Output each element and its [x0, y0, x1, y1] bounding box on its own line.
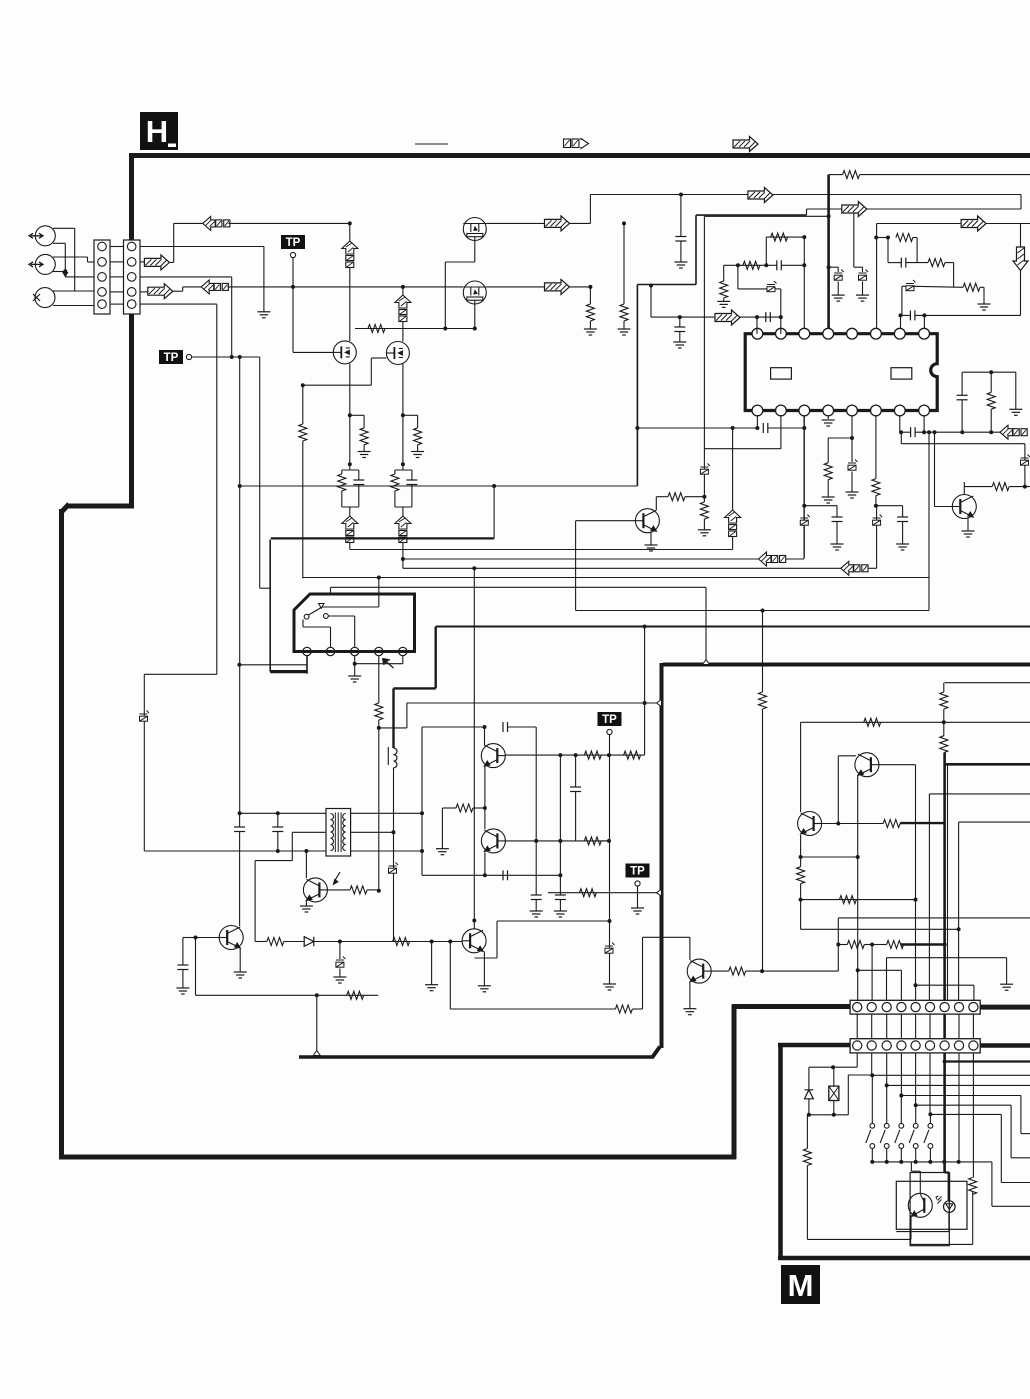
wire pin2 riser — [780, 289, 782, 334]
ground — [333, 977, 346, 983]
switch lever — [880, 1130, 885, 1143]
relay RL1 outline — [294, 594, 415, 652]
wire to edge — [1021, 1133, 1030, 1135]
wire — [679, 332, 681, 343]
wire rc top — [342, 469, 359, 471]
junction — [827, 265, 831, 269]
wire switch feed — [915, 1105, 917, 1123]
capacitor polarized small — [140, 711, 150, 722]
ground — [603, 984, 616, 990]
wire — [341, 470, 343, 474]
wire to strip row3 — [65, 276, 94, 278]
resistor — [987, 392, 995, 409]
wire — [1020, 271, 1022, 315]
wire — [929, 1113, 931, 1115]
wire — [990, 372, 992, 392]
wire pin7 thin — [947, 764, 949, 1000]
connector CN3 pin — [867, 1003, 876, 1012]
capacitor — [957, 395, 968, 400]
wire — [623, 321, 625, 329]
IC U1 pin bottom — [752, 405, 763, 416]
junction — [799, 898, 803, 902]
wire CN3-CN4 — [856, 1014, 858, 1039]
junction — [430, 940, 434, 944]
resistor — [624, 751, 641, 759]
wire — [862, 267, 864, 272]
wire — [444, 262, 446, 329]
wire — [277, 832, 279, 852]
wire — [943, 683, 945, 692]
wire pin5 down — [402, 656, 404, 664]
connector CN3 pin — [853, 1003, 862, 1012]
wire right rail1 — [801, 721, 1030, 723]
capacitor polarized small — [834, 270, 844, 281]
wire step — [930, 1113, 1001, 1115]
wire — [868, 567, 877, 569]
wire — [195, 938, 197, 996]
relay pin — [351, 647, 359, 655]
junction — [238, 811, 242, 815]
test point TP3 — [598, 712, 622, 735]
wire — [732, 537, 734, 550]
wire — [961, 372, 963, 395]
wire down to ground — [263, 247, 265, 312]
wire — [441, 808, 443, 849]
wire pin14 drop — [875, 415, 877, 479]
junction — [761, 609, 765, 613]
switch lever — [866, 1130, 871, 1143]
junction triangle — [313, 1051, 320, 1056]
wire — [173, 290, 183, 292]
wire to FET Q3 gate — [293, 351, 333, 353]
wire — [442, 807, 456, 809]
ground — [717, 301, 730, 307]
wire — [906, 262, 928, 264]
wire — [406, 703, 408, 728]
wire CN1-CN2 — [110, 246, 124, 248]
wire — [314, 941, 462, 943]
resistor — [620, 304, 628, 321]
junction — [755, 426, 759, 430]
wire — [943, 722, 945, 735]
wire — [738, 288, 767, 290]
IC U1 pin bottom — [894, 405, 905, 416]
svg-text:M: M — [788, 1268, 814, 1303]
junction — [276, 811, 280, 815]
wire switch feed — [871, 1075, 873, 1123]
wire — [723, 265, 725, 281]
wire relay arm rail — [322, 606, 379, 608]
wire — [943, 709, 945, 722]
ground — [425, 985, 438, 991]
junction — [914, 1103, 918, 1107]
resistor — [720, 281, 728, 298]
bus down — [435, 627, 437, 689]
wire — [291, 832, 293, 860]
transistor Q8a — [481, 744, 505, 768]
wire right rail3 — [801, 928, 959, 930]
wire to edge — [1001, 1182, 1030, 1184]
border H top — [129, 153, 1030, 158]
wire — [838, 823, 883, 825]
arrow to pin1 — [715, 310, 740, 325]
wire TP1 lower — [292, 287, 294, 353]
wire — [887, 238, 889, 263]
wire to edge — [887, 1084, 1030, 1086]
border region2 bottom rail — [299, 1055, 654, 1059]
wire feedback rail — [196, 994, 379, 996]
junction — [807, 1113, 811, 1117]
capacitor polarized small — [389, 863, 399, 874]
wire bottom rail — [422, 874, 560, 876]
wire — [260, 587, 271, 589]
wire pin drop — [886, 1053, 888, 1086]
wire — [88, 261, 95, 263]
wire Q14 collector — [838, 755, 856, 757]
wire diode rail — [255, 941, 267, 943]
wire strip row2 — [140, 261, 144, 263]
transformer T1 winding right — [343, 814, 346, 851]
IC U1 pin top — [919, 328, 930, 339]
wire — [402, 464, 404, 470]
wire — [809, 1114, 848, 1116]
IC U1 pin bottom — [847, 405, 858, 416]
wire — [896, 1231, 949, 1233]
wire bundle 2b — [474, 567, 841, 569]
connector CN2 pin — [127, 242, 136, 251]
resistor — [864, 718, 881, 726]
wire riser — [575, 521, 577, 611]
diode D2 — [805, 1090, 814, 1099]
connector CN4 pin — [940, 1041, 949, 1050]
capacitor — [272, 827, 283, 832]
wire step — [806, 209, 808, 215]
wire to FET Q4 — [402, 322, 404, 342]
transistor Q8b — [481, 829, 505, 853]
wire Q8b base rail — [506, 840, 610, 842]
wire — [363, 415, 365, 428]
wire down — [589, 287, 591, 304]
wire — [847, 1075, 849, 1115]
junction — [852, 207, 856, 211]
wire coil down — [393, 768, 395, 942]
junction — [678, 315, 682, 319]
wire — [349, 543, 351, 550]
test point TP2 — [159, 350, 192, 364]
ground — [856, 295, 869, 301]
transformer core — [337, 813, 339, 853]
wire — [837, 267, 839, 272]
arrow supply top3 — [961, 216, 986, 231]
wire — [746, 970, 762, 972]
capacitor — [910, 310, 915, 320]
wire — [804, 505, 837, 507]
wire — [800, 884, 802, 930]
wire — [394, 491, 396, 507]
IC U1 pin top — [871, 328, 882, 339]
junction — [401, 285, 405, 289]
wire step — [1000, 1114, 1002, 1182]
junction — [483, 873, 487, 877]
wire — [508, 726, 537, 728]
wire — [900, 1149, 902, 1162]
resistor — [368, 325, 385, 333]
arrow page ref top — [733, 137, 758, 152]
resistor — [928, 259, 945, 267]
switch lever — [924, 1130, 929, 1143]
ground — [822, 420, 835, 426]
wire riser to IC pin11 — [803, 415, 805, 560]
junction — [702, 495, 706, 499]
wire — [475, 957, 498, 959]
wire — [833, 1067, 835, 1086]
connector CN3 pin — [911, 1003, 920, 1012]
wire — [407, 702, 436, 704]
wire riser — [876, 506, 878, 569]
junction — [957, 927, 961, 931]
wire CN3-CN4 — [900, 1014, 902, 1039]
coupling arrows — [936, 1196, 942, 1204]
junction — [731, 426, 735, 430]
junction — [194, 936, 198, 940]
capacitor — [763, 423, 768, 433]
transistor Q13 — [798, 812, 822, 836]
junction — [1023, 485, 1027, 489]
LED triangle — [946, 1204, 953, 1210]
wire — [643, 936, 690, 938]
capacitor — [353, 480, 364, 485]
resistor — [729, 967, 746, 975]
wire — [911, 1170, 920, 1172]
ground — [554, 911, 567, 917]
ground — [234, 972, 247, 978]
wire — [872, 944, 887, 946]
bus supply to IC pin4 — [827, 175, 830, 328]
wire — [497, 920, 610, 922]
junction — [755, 315, 759, 319]
wire step — [991, 1162, 993, 1206]
wire — [637, 887, 639, 909]
wire — [402, 507, 404, 516]
junction — [899, 1094, 903, 1098]
wire — [1015, 372, 1017, 409]
arrow ref mid2 — [841, 561, 868, 575]
junction — [63, 269, 67, 273]
junction — [799, 855, 803, 859]
wire Q8a emitter — [484, 766, 486, 808]
wire CN3-CN4 — [915, 1014, 917, 1039]
wire from bus — [650, 286, 652, 318]
bus wire — [696, 214, 807, 216]
wire pin drop — [915, 1053, 917, 1105]
inductor core bar — [387, 747, 389, 765]
wire left rail mid-block — [421, 727, 423, 875]
wire — [972, 1191, 974, 1245]
border region2 top — [663, 663, 1030, 667]
wire pin1 riser — [756, 317, 758, 334]
wire — [403, 414, 418, 416]
IC U1 pin top — [752, 328, 763, 339]
wire — [910, 1239, 912, 1244]
wire — [685, 496, 704, 498]
junction — [643, 701, 647, 705]
wire divider row — [838, 944, 847, 946]
wire lower rail — [901, 443, 1025, 445]
wire Q9 collector — [689, 937, 691, 960]
relay contact b — [324, 614, 329, 619]
wire — [836, 506, 838, 517]
wire — [851, 472, 853, 493]
connector CN4 pin — [969, 1041, 978, 1050]
wire switch feed — [929, 1114, 931, 1123]
border M bottom — [778, 1256, 1030, 1261]
transistor Q11 — [635, 509, 659, 533]
fuse F1 cross — [829, 1086, 839, 1100]
wire — [704, 215, 828, 217]
wire step — [1010, 1105, 1012, 1158]
connector CN1 pin — [98, 288, 107, 297]
wire TP2 rail — [192, 356, 260, 358]
arrow supply row1 — [545, 216, 570, 231]
resistor — [615, 1005, 632, 1013]
junction TP2 — [238, 355, 242, 359]
wire bundle 4 — [331, 586, 707, 588]
wire to edge — [1011, 1157, 1030, 1159]
border H right of connector — [979, 1005, 1030, 1010]
wire Q1 out — [486, 222, 544, 224]
resistor — [586, 304, 594, 321]
wire — [358, 485, 360, 508]
ground — [674, 262, 687, 268]
wire — [900, 1095, 902, 1097]
wire jack2 top — [53, 256, 88, 258]
wire riser pin5 — [915, 985, 917, 1000]
wire to pin3 — [354, 616, 356, 647]
resistor — [360, 428, 368, 445]
resistor — [824, 463, 832, 480]
resistor — [456, 804, 473, 812]
junction — [836, 943, 840, 947]
IC U1 pin bottom — [919, 405, 930, 416]
FET Q2 — [463, 281, 486, 304]
junction — [885, 1083, 889, 1087]
border H right riser — [732, 1005, 737, 1160]
wire TP1 down — [292, 258, 294, 287]
wire — [341, 491, 343, 507]
wire — [902, 285, 906, 287]
wire strip row1 — [140, 246, 264, 248]
wire — [953, 263, 955, 288]
wire to FET Q3 — [349, 268, 351, 342]
IC U1 pin bottom — [823, 405, 834, 416]
resistor — [668, 493, 685, 501]
wire down to TP2 rail — [231, 277, 233, 357]
wire CN1-CN2 — [110, 303, 124, 305]
resistor — [843, 171, 860, 179]
wire — [871, 1074, 874, 1076]
wire TP3 down — [609, 735, 611, 984]
wire — [980, 286, 984, 288]
wire arrow drop — [1020, 224, 1022, 248]
wire step — [1020, 195, 1022, 210]
resistor — [391, 474, 399, 491]
capacitor polarized small — [873, 515, 883, 526]
switch contact bottom — [870, 1144, 875, 1149]
wire riser — [493, 486, 495, 538]
wire — [411, 470, 413, 480]
arrow ref up3 — [725, 510, 741, 537]
arrow ref up1 — [342, 241, 358, 268]
wire — [704, 448, 781, 450]
IC U1 pin top — [823, 328, 834, 339]
junction — [760, 969, 764, 973]
junction — [483, 725, 487, 729]
wire — [854, 266, 863, 268]
wire Q11 collector — [655, 497, 657, 510]
wire — [1006, 958, 1008, 985]
resistor — [896, 234, 913, 242]
arrow ref left upper — [203, 216, 230, 230]
wire Q8a base rail — [506, 754, 645, 756]
wire — [886, 1149, 888, 1162]
wire — [901, 314, 911, 316]
connector CN2 pin — [127, 258, 136, 267]
wire — [766, 264, 777, 266]
wire bundle 1 — [403, 558, 759, 560]
svg-text:TP: TP — [602, 714, 617, 726]
long wire down left — [216, 304, 218, 674]
capacitor polarized small — [1021, 455, 1030, 466]
wire — [801, 856, 858, 858]
border H bottom — [59, 1155, 736, 1160]
connector CN3 pin — [882, 1003, 891, 1012]
wire — [765, 237, 767, 265]
connector CN4 housing — [850, 1039, 980, 1053]
switch contact top — [928, 1123, 933, 1128]
capacitor — [911, 427, 916, 437]
wire — [370, 358, 372, 385]
wire bundle 3 — [303, 577, 929, 579]
wire — [762, 709, 764, 971]
wire CN1-CN2 — [110, 261, 124, 263]
wire pin rail — [637, 427, 757, 429]
junction — [558, 873, 562, 877]
ground — [962, 531, 975, 537]
capacitor — [777, 260, 782, 270]
ground — [300, 906, 313, 912]
wire to edge — [860, 174, 1030, 176]
wire Q4 gate feed — [303, 384, 372, 386]
wire top feed — [407, 702, 662, 704]
wire Q1 source — [474, 241, 476, 263]
connector CN4 pin — [925, 1041, 934, 1050]
capacitor polarized small — [767, 281, 777, 292]
wire step — [1020, 1096, 1022, 1134]
wire pin drop — [871, 1053, 873, 1075]
capacitor polarized small — [800, 515, 810, 526]
connector CN2 housing — [124, 240, 141, 314]
wire CN3-CN4 — [958, 1014, 960, 1039]
wire pin6 riser — [876, 224, 878, 329]
resistor — [700, 502, 708, 519]
wire pin12 stub — [827, 415, 829, 419]
wire — [900, 431, 911, 433]
wire — [871, 1149, 873, 1162]
junction — [607, 753, 611, 757]
junction — [942, 720, 946, 724]
resistor — [350, 886, 367, 894]
wire rc loop — [876, 237, 888, 239]
